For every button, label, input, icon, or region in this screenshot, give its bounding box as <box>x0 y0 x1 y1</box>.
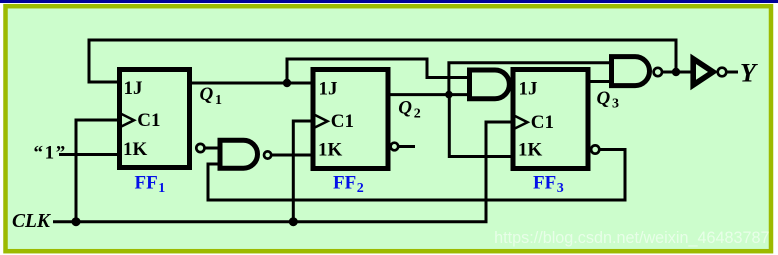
svg-text:FF: FF <box>333 173 356 194</box>
svg-text:2: 2 <box>357 181 364 196</box>
svg-text:https://blog.csdn.net/weixin_4: https://blog.csdn.net/weixin_46483787 <box>494 229 769 247</box>
svg-text:C1: C1 <box>531 112 554 133</box>
svg-text:FF: FF <box>135 173 158 194</box>
svg-text:FF: FF <box>533 173 556 194</box>
svg-text:Y: Y <box>740 58 758 87</box>
svg-text:1J: 1J <box>319 78 338 99</box>
svg-text:2: 2 <box>414 106 421 121</box>
svg-text:1J: 1J <box>519 78 538 99</box>
svg-text:Q: Q <box>398 98 412 119</box>
svg-text:1J: 1J <box>124 78 143 99</box>
svg-text:1K: 1K <box>123 139 148 160</box>
svg-text:CLK: CLK <box>12 211 52 232</box>
svg-text:C1: C1 <box>137 110 160 131</box>
svg-text:1K: 1K <box>318 139 343 160</box>
svg-text:C1: C1 <box>331 111 354 132</box>
svg-text:1: 1 <box>215 93 222 108</box>
svg-text:Q: Q <box>597 88 611 109</box>
svg-text:1: 1 <box>158 181 165 196</box>
svg-text:1K: 1K <box>518 139 543 160</box>
svg-text:3: 3 <box>612 97 619 112</box>
svg-text:“1”: “1” <box>34 143 67 164</box>
svg-text:Q: Q <box>200 84 214 105</box>
svg-text:3: 3 <box>557 181 564 196</box>
